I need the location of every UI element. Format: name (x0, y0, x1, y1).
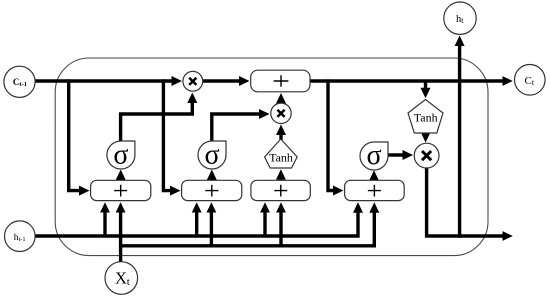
add box B4 (output gate sum) (345, 180, 405, 200)
add box B3 (candidate sum) (251, 180, 310, 200)
wire h branch to add box B1 (103, 211, 106, 238)
svg-text:σ: σ (366, 140, 381, 171)
wire peephole drop to add box B1 (69, 79, 81, 190)
wire add box B2 to sigma S2 (210, 178, 213, 180)
wire multiply X1 to add box BT (203, 79, 241, 82)
wire Tanh T2 output to multiply X3 (424, 133, 427, 134)
wire sigma S1 output to multiply X1 (121, 101, 193, 142)
wire Tanh T1 output to multiply X2 (279, 133, 282, 140)
wire Ct-1 to multiply X1 (35, 79, 174, 82)
wire multiply X2 to add box BT (279, 102, 282, 104)
Tanh T2 (cell output activation pentagon) (408, 100, 443, 134)
wire add box BT to Ct (310, 79, 504, 82)
wire ht branch up (458, 44, 461, 238)
wire ht-1 input line to add box B4 (35, 211, 358, 236)
wire C line down to Tanh T2 (424, 81, 427, 90)
add box BT (cell state add) (251, 70, 310, 92)
wire h branch to add box B2 (195, 211, 198, 238)
wire peephole drop to add box B2 (163, 79, 172, 190)
svg-text:σ: σ (204, 139, 219, 170)
node Ct (515, 65, 546, 96)
svg-text:Tanh: Tanh (269, 151, 293, 165)
node ht (444, 2, 476, 34)
wire add box B1 to sigma S1 (119, 178, 122, 180)
multiply X1 (183, 71, 203, 91)
multiply X2 (271, 103, 291, 123)
multiply X3 (414, 143, 439, 168)
wire add box B3 to Tanh T1 (279, 178, 282, 181)
svg-text:σ: σ (113, 139, 128, 170)
Tanh T1 (candidate activation pentagon) (265, 139, 298, 168)
wire X branch to add box B2 (210, 211, 213, 248)
wire add box B4 to sigma S3 (372, 179, 375, 181)
add box B1 (forget gate sum) (91, 180, 151, 200)
wire Xt branch line to add box B4 (119, 211, 374, 246)
wire h branch to add box B3 (263, 211, 266, 238)
wire sigma S3 output to multiply X3 (388, 153, 405, 156)
wire peephole drop to add box B4 (328, 79, 335, 190)
sigma S3 (output gate) (360, 140, 388, 171)
wire X branch to add box B3 (279, 211, 282, 248)
node Ct-1 (4, 66, 35, 97)
wire Xt vertical to add box B1 (119, 211, 122, 262)
LSTM cell boundary (55, 58, 488, 256)
svg-text:ht: ht (456, 14, 464, 25)
wire sigma S2 output to multiply X2 (212, 114, 261, 142)
add box B2 (input gate sum) (182, 180, 242, 200)
svg-text:Tanh: Tanh (414, 111, 438, 125)
wire multiply X3 output exiting right (427, 168, 505, 236)
sigma S2 (input gate) (198, 139, 226, 170)
node ht-1 (4, 221, 35, 252)
node Xt (105, 262, 138, 295)
sigma S1 (forget gate) (107, 139, 135, 170)
